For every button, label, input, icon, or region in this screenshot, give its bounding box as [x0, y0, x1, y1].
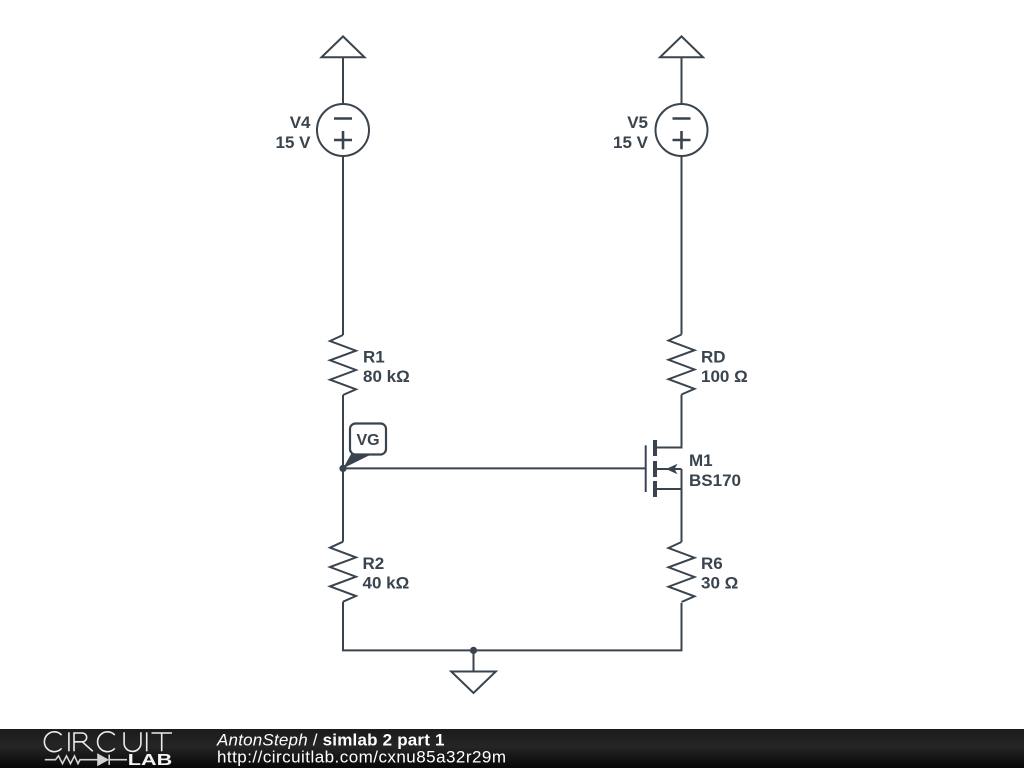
junction: ground rail node: [470, 647, 477, 654]
wire: right power flag to V5: [681, 57, 683, 104]
wire: V5 to RD: [681, 156, 683, 335]
wire: R2 to ground rail: [342, 602, 344, 651]
wire: left power flag to V4: [342, 57, 344, 104]
wire: bottom ground rail: [343, 603, 682, 651]
wire: gate net from node VG to M1 gate: [343, 467, 646, 469]
wire: M1 source to R6: [681, 489, 683, 542]
svg-text:RD: RD: [701, 347, 726, 366]
CircuitLab logo wordmark CIRCUIT (drawn thin letters): [44, 732, 172, 752]
svg-text:http://circuitlab.com/cxnu85a3: http://circuitlab.com/cxnu85a32r29m: [217, 748, 506, 767]
transistor M1 (NMOS): [646, 440, 682, 497]
voltage source V4: [317, 104, 369, 156]
resistor R2: [330, 542, 356, 602]
svg-text:LAB: LAB: [128, 752, 173, 768]
CircuitLab logo resistor-diode art: [45, 755, 127, 765]
svg-text:BS170: BS170: [689, 471, 741, 490]
resistor R1: [330, 335, 356, 395]
svg-text:M1: M1: [689, 451, 713, 470]
svg-text:40 kΩ: 40 kΩ: [363, 574, 410, 593]
svg-text:100 Ω: 100 Ω: [701, 367, 748, 386]
svg-text:V5: V5: [627, 113, 648, 132]
footer bar: [0, 729, 1024, 768]
svg-text:VG: VG: [356, 432, 379, 449]
junction: node VG dot: [339, 465, 346, 472]
wire: V4 to R1: [342, 156, 344, 335]
resistor RD: [669, 335, 695, 395]
svg-text:V4: V4: [290, 113, 311, 132]
wire: node VG to R2: [342, 468, 344, 541]
wire: RD to M1 drain: [656, 395, 682, 448]
net flag VG: [343, 424, 386, 469]
svg-text:R6: R6: [701, 554, 723, 573]
svg-text:30 Ω: 30 Ω: [701, 574, 738, 593]
svg-text:15 V: 15 V: [276, 133, 312, 152]
power flag +V (right): [660, 36, 703, 57]
svg-text:R2: R2: [363, 554, 385, 573]
resistor R6: [669, 542, 695, 602]
voltage source V5: [656, 104, 708, 156]
svg-text:AntonSteph / simlab 2 part 1: AntonSteph / simlab 2 part 1: [216, 730, 445, 749]
svg-text:80 kΩ: 80 kΩ: [363, 367, 410, 386]
ground symbol: [451, 650, 496, 693]
svg-text:15 V: 15 V: [613, 133, 649, 152]
power flag +V (left): [322, 36, 365, 57]
wire: R1 to node VG: [342, 395, 344, 468]
svg-text:R1: R1: [363, 347, 385, 366]
